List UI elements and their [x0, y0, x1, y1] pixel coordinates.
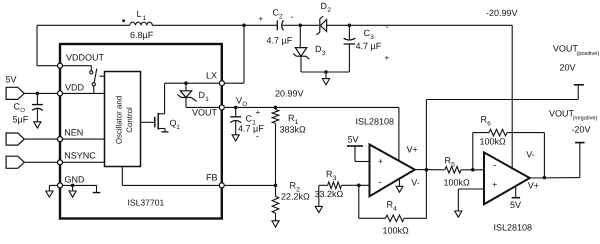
label C1 — [246, 114, 257, 127]
svg-text:6.8µF: 6.8µF — [130, 30, 154, 40]
transistor Q1 — [141, 113, 169, 132]
node VOUT — [219, 105, 224, 110]
label D2 — [321, 1, 332, 14]
svg-text:3: 3 — [322, 50, 326, 57]
label ISL37701 — [128, 198, 165, 208]
label 20.99V — [275, 89, 304, 99]
label CO — [14, 102, 26, 115]
label V+ U1 — [407, 145, 418, 155]
connector NSYNC input — [6, 156, 24, 168]
svg-text:V+: V+ — [407, 145, 418, 155]
block oscillator-and-control box — [105, 72, 141, 167]
svg-text:+: + — [259, 15, 264, 24]
svg-text:V-: V- — [526, 150, 535, 160]
label Control — [125, 107, 134, 133]
node VDD — [58, 91, 63, 96]
wire U2 output — [530, 177, 580, 179]
label Q1 — [170, 118, 181, 131]
label R3 — [326, 169, 337, 182]
wire D3 bottom — [301, 56, 349, 72]
junction C1 tap — [234, 106, 238, 110]
svg-text:383kΩ: 383kΩ — [280, 125, 307, 135]
node LX — [219, 81, 224, 86]
svg-text:1: 1 — [143, 15, 147, 22]
wire top rail middle segment — [152, 24, 277, 26]
capacitor C3 — [344, 25, 356, 72]
inductor L1 — [130, 22, 153, 25]
label plus C2 — [259, 15, 264, 24]
wire GND left — [49, 185, 58, 191]
capacitor C2 — [277, 20, 283, 30]
label 4.7uF C2 — [267, 36, 293, 46]
ground C1 — [232, 135, 239, 141]
svg-text:O: O — [242, 101, 247, 108]
ground R2 — [272, 221, 279, 227]
switch VDDOUT-VDD — [60, 66, 105, 94]
label minus C3 — [386, 22, 389, 32]
node FB — [219, 183, 224, 188]
label 5V U1 — [348, 135, 359, 145]
svg-text:(positive): (positive) — [577, 50, 600, 57]
label 33.2kOhm — [315, 189, 344, 199]
svg-text:-: - — [378, 177, 381, 188]
svg-text:ISL37701: ISL37701 — [128, 198, 165, 208]
capacitor CO — [32, 93, 43, 121]
wire C2 to D2 — [283, 24, 320, 26]
svg-text:5V: 5V — [510, 200, 521, 210]
terminal VOUT positive — [574, 85, 584, 100]
label ISL28108 U2 — [494, 223, 533, 233]
wire top rail left segment — [37, 24, 130, 26]
svg-text:4.7 µF: 4.7 µF — [238, 124, 264, 134]
label L1 — [137, 9, 147, 22]
label Vo — [236, 96, 247, 109]
svg-text:5V: 5V — [348, 135, 359, 145]
wire VO riser to U1 V+ — [398, 107, 400, 160]
wire U1 output — [415, 169, 445, 171]
wire LX riser — [224, 25, 244, 83]
label 6.8uF — [130, 30, 154, 40]
junction GND mid — [71, 184, 75, 188]
wire U1 output riser to VOUT positive — [426, 100, 578, 170]
ground GND right bar — [93, 185, 101, 192]
label plus input U2 — [492, 180, 497, 190]
svg-text:-: - — [493, 160, 496, 171]
label minus C1 — [256, 131, 259, 141]
label D1 — [199, 90, 210, 103]
svg-text:L: L — [137, 9, 142, 19]
svg-text:5V: 5V — [6, 75, 17, 85]
svg-text:100kΩ: 100kΩ — [480, 137, 507, 147]
label VOUT negative — [549, 108, 598, 121]
label 4.7uF C1 — [238, 124, 264, 134]
svg-text:2: 2 — [279, 14, 283, 21]
svg-text:VOUT: VOUT — [192, 108, 218, 118]
label minus C2 — [291, 12, 294, 22]
label LX pin — [206, 71, 217, 81]
svg-text:+: + — [256, 108, 261, 117]
svg-text:-: - — [256, 131, 259, 141]
wire U2 plus input ground — [458, 189, 484, 211]
svg-text:5µF: 5µF — [13, 115, 29, 125]
label plus C1 — [256, 108, 261, 117]
svg-text:22.2kΩ: 22.2kΩ — [281, 192, 310, 202]
label 5V input — [6, 75, 17, 85]
svg-text:-20.99V: -20.99V — [486, 8, 518, 18]
svg-text:+: + — [385, 54, 390, 63]
wire FB to divider — [224, 184, 276, 186]
junction ground tap D3/C3 — [324, 70, 328, 74]
svg-text:VDDOUT: VDDOUT — [66, 53, 105, 63]
label 100kOhm R6 — [480, 137, 507, 147]
svg-text:ISL28108: ISL28108 — [494, 223, 533, 233]
resistor R3 — [319, 182, 370, 189]
wire GND right — [62, 184, 97, 186]
resistor R6 — [473, 129, 545, 177]
svg-text:+: + — [492, 180, 497, 190]
label V+ U2 — [528, 180, 539, 190]
svg-text:ISL28108: ISL28108 — [356, 117, 395, 127]
svg-text:3: 3 — [370, 34, 374, 41]
wire VDDOUT to top rail riser — [37, 25, 60, 65]
label 100kOhm R5 — [444, 178, 471, 188]
svg-text:20V: 20V — [560, 63, 576, 73]
wire NSYNC — [24, 161, 104, 163]
resistor R4 — [359, 170, 427, 222]
wire Q1 drain — [165, 83, 220, 114]
resistor R1 — [272, 107, 279, 185]
ground GND mid — [69, 191, 76, 197]
label VOUT pin — [192, 108, 218, 118]
svg-text:Control: Control — [125, 107, 134, 133]
wire D1 to VOUT — [186, 106, 220, 108]
supply 5V U1 — [347, 146, 370, 162]
node VDDOUT — [58, 63, 63, 68]
svg-text:20.99V: 20.99V — [275, 89, 304, 99]
ground GND left — [46, 191, 53, 197]
label V- U1 — [411, 177, 420, 187]
wire VO rail — [224, 106, 399, 108]
op-amp U1 — [370, 145, 415, 197]
label VDDOUT pin — [66, 53, 105, 63]
junction U1 output — [425, 168, 429, 172]
svg-text:O: O — [20, 107, 25, 114]
label -20V — [572, 125, 591, 135]
ground CO — [34, 122, 41, 128]
junction D1 tap — [184, 81, 188, 85]
wire GND mid drop — [72, 185, 74, 191]
svg-text:-: - — [386, 22, 389, 32]
junction FB divider — [274, 184, 278, 188]
svg-text:4.7 µF: 4.7 µF — [356, 41, 382, 51]
label VDD pin — [65, 83, 85, 93]
connector 5V input — [6, 87, 24, 99]
label minus input U1 — [378, 177, 381, 188]
diode D2 — [316, 16, 326, 35]
label R4 — [387, 200, 398, 213]
label VOUT positive — [553, 44, 599, 58]
svg-text:FB: FB — [206, 173, 218, 183]
label R5 — [445, 156, 456, 169]
wire NEN — [24, 138, 104, 140]
terminal VOUT negative — [575, 143, 585, 178]
label 20V — [560, 63, 576, 73]
junction CO tap — [36, 92, 40, 96]
svg-text:V-: V- — [411, 177, 420, 187]
label R6 — [481, 115, 492, 128]
wire VDD to oscillator — [62, 92, 105, 94]
op-amp U2 — [484, 152, 530, 204]
junction R6 tap — [471, 168, 475, 172]
supply 5V U2 — [512, 186, 520, 197]
svg-text:LX: LX — [206, 71, 217, 81]
label 4.7uF C3 — [356, 41, 382, 51]
label 5uF — [13, 115, 29, 125]
svg-text:GND: GND — [65, 175, 86, 185]
label C3 — [364, 28, 375, 41]
label -20.99V — [486, 8, 518, 18]
svg-text:V+: V+ — [528, 180, 539, 190]
junction LX riser on top rail — [242, 24, 246, 28]
label V- U2 — [526, 150, 535, 160]
label FB pin — [206, 173, 218, 183]
svg-text:1: 1 — [176, 124, 180, 131]
capacitor C1 — [230, 107, 241, 134]
svg-text:4.7 µF: 4.7 µF — [267, 36, 293, 46]
label plus C3 — [385, 54, 390, 63]
label D3 — [315, 44, 326, 57]
diode D3 — [293, 48, 309, 60]
ground U2 plus input — [455, 211, 462, 217]
svg-text:5: 5 — [451, 162, 455, 169]
svg-text:-: - — [291, 12, 294, 22]
junction R1 tap — [274, 106, 278, 110]
junction R4 tap — [357, 184, 361, 188]
svg-text:1: 1 — [205, 96, 209, 103]
svg-text:4: 4 — [393, 206, 397, 213]
wire FB internal — [122, 167, 219, 186]
svg-text:6: 6 — [487, 121, 491, 128]
svg-text:100kΩ: 100kΩ — [383, 226, 410, 236]
junction C3 tap — [348, 24, 352, 28]
phase dot — [122, 19, 125, 22]
svg-text:3: 3 — [333, 175, 337, 182]
label 383kOhm — [280, 125, 307, 135]
junction U2 output — [543, 176, 547, 180]
svg-text:(negative): (negative) — [573, 115, 598, 122]
wire D2 to rail end — [327, 24, 513, 26]
svg-text:+: + — [378, 156, 383, 166]
svg-text:NEN: NEN — [64, 128, 83, 138]
label NSYNC pin — [64, 151, 96, 161]
wire -20.99V riser (op-amp U2 V- supply) — [511, 25, 513, 168]
node NSYNC — [58, 160, 63, 165]
svg-text:VDD: VDD — [65, 83, 85, 93]
label plus input U1 — [378, 156, 383, 166]
diode D1 — [177, 83, 196, 107]
svg-text:V: V — [236, 96, 242, 106]
label 100kOhm R4 — [383, 226, 410, 236]
svg-text:NSYNC: NSYNC — [64, 151, 96, 161]
connector NEN input — [6, 133, 24, 145]
node GND — [58, 183, 63, 188]
svg-text:VOUT: VOUT — [553, 44, 579, 54]
svg-text:Oscillator and: Oscillator and — [115, 96, 124, 144]
resistor R2 — [272, 185, 279, 220]
label 5V U2 — [510, 200, 521, 210]
junction D3 tap — [299, 24, 303, 28]
wire 5V to VDD — [24, 92, 58, 94]
ground U1 V- — [396, 178, 403, 192]
IC ISL37701 box — [60, 44, 222, 219]
node NEN — [58, 137, 63, 142]
label Oscillator and — [115, 96, 124, 144]
ground R3 — [315, 185, 322, 212]
svg-text:-20V: -20V — [572, 125, 591, 135]
label ISL28108 U1 — [356, 117, 395, 127]
svg-text:2: 2 — [327, 7, 331, 14]
label 22.2kOhm — [281, 192, 310, 202]
svg-text:100kΩ: 100kΩ — [444, 178, 471, 188]
resistor R5 — [445, 167, 484, 174]
label R2 — [290, 181, 301, 194]
label R1 — [288, 113, 299, 126]
label GND pin — [65, 175, 86, 185]
label C2 — [273, 8, 284, 21]
svg-text:VOUT: VOUT — [549, 108, 575, 118]
ground D3/C3 — [322, 72, 329, 85]
wire D3 top — [299, 25, 301, 47]
label NEN pin — [64, 128, 83, 138]
label minus input U2 — [493, 160, 496, 171]
